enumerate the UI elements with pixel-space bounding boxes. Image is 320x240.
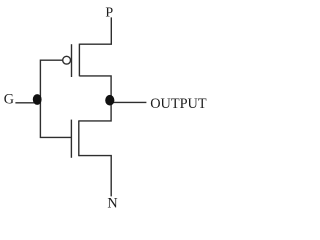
svg-text:P: P [105, 5, 113, 20]
svg-text:N: N [107, 195, 117, 211]
svg-text:G: G [4, 91, 14, 107]
svg-text:OUTPUT: OUTPUT [150, 96, 207, 112]
